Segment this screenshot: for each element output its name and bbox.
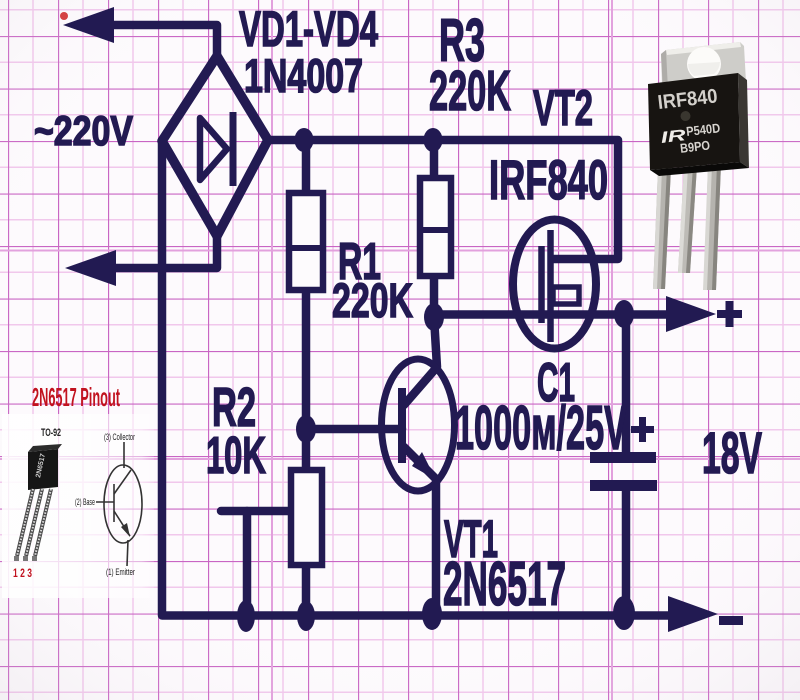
svg-text:(1) Emitter: (1) Emitter: [106, 567, 135, 577]
svg-text:220K: 220K: [332, 275, 413, 328]
svg-text:TO-92: TO-92: [41, 427, 61, 439]
svg-text:2N6517: 2N6517: [443, 550, 566, 619]
svg-text:18V: 18V: [702, 421, 762, 486]
svg-text:1000м/25V: 1000м/25V: [455, 394, 627, 463]
svg-text:(3) Collector: (3) Collector: [104, 432, 135, 442]
svg-text:220K: 220K: [429, 59, 511, 123]
svg-text:~220V: ~220V: [34, 107, 133, 154]
svg-text:(2) Base: (2) Base: [75, 497, 95, 507]
svg-text:10K: 10K: [206, 427, 266, 485]
svg-text:1N4007: 1N4007: [244, 49, 363, 102]
svg-text:IRF840: IRF840: [489, 148, 608, 211]
svg-text:2N6517 Pinout: 2N6517 Pinout: [32, 382, 120, 412]
svg-text:VT2: VT2: [533, 80, 593, 136]
svg-text:1 2 3: 1 2 3: [13, 566, 32, 580]
